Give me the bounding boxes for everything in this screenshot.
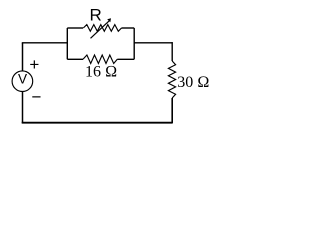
wire: output wire to right side <box>134 42 172 44</box>
wire: right wire lower segment <box>171 98 173 123</box>
wire: right wire upper segment <box>171 42 173 61</box>
resistor R (variable) zigzag <box>83 25 121 32</box>
node B: right bar of parallel combination <box>133 28 135 59</box>
svg-text:+: + <box>29 55 39 74</box>
wire: left wire upper segment <box>22 43 24 71</box>
wire: left wire lower segment <box>22 92 24 123</box>
node A: left bar of parallel combination <box>66 28 68 59</box>
wire: top wire from source to parallel node <box>22 42 68 44</box>
wire: bottom branch left lead <box>67 58 83 60</box>
svg-text:R: R <box>90 5 102 24</box>
wire: bottom branch right lead <box>117 58 134 60</box>
wire: top branch left lead <box>67 27 83 29</box>
wire: bottom wire <box>22 122 173 124</box>
svg-text:V: V <box>18 71 27 86</box>
wire: top branch right lead <box>122 27 135 29</box>
svg-text:−: − <box>32 88 42 107</box>
resistor 30 ohm zigzag <box>168 61 175 98</box>
voltage source V1 circle <box>12 71 33 92</box>
resistor 16 ohm zigzag <box>83 55 117 64</box>
svg-text:16 Ω: 16 Ω <box>85 64 117 81</box>
svg-text:30 Ω: 30 Ω <box>177 74 209 91</box>
arrow of variable resistor R <box>91 20 110 38</box>
